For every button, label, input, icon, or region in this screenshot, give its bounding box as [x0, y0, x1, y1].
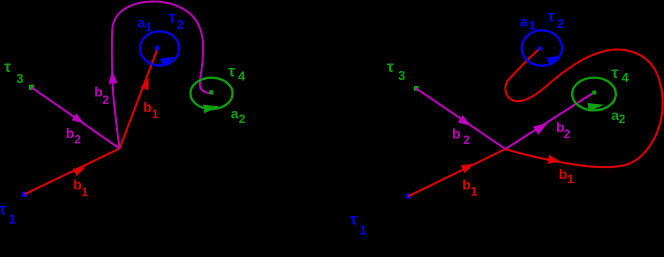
loop a2 (right green circle)	[572, 78, 616, 112]
node tau_1 (right, blue puncture point)	[406, 194, 411, 199]
svg-text:2: 2	[564, 127, 571, 141]
label tau_1 (right)	[350, 212, 367, 238]
wire b2 segment junction to tau_4 point (right)	[505, 94, 592, 150]
svg-text:b: b	[559, 166, 568, 182]
svg-text:3: 3	[398, 68, 405, 83]
node tau_4 (left, green puncture point)	[209, 90, 213, 94]
svg-text:τ: τ	[169, 10, 176, 27]
label tau_2 (left)	[169, 10, 184, 33]
loop a1 (right blue circle)	[522, 30, 562, 66]
svg-text:1: 1	[471, 185, 478, 199]
svg-text:1: 1	[9, 212, 16, 227]
label tau_3 (left)	[4, 59, 23, 86]
svg-text:1: 1	[82, 185, 89, 199]
svg-text:2: 2	[557, 16, 564, 31]
wire b2 segment tau_3 to junction (right)	[416, 88, 505, 149]
svg-text:τ: τ	[0, 202, 6, 219]
svg-text:2: 2	[619, 112, 626, 126]
loop a1 (left blue circle)	[140, 31, 179, 67]
svg-text:1: 1	[360, 223, 367, 238]
svg-text:a: a	[520, 13, 528, 29]
svg-text:4: 4	[238, 69, 246, 84]
loop a2 (left green circle)	[190, 78, 232, 113]
label b2 (left loop ascending branch)	[94, 84, 109, 107]
label b2 (left of tau_3 arrow)	[66, 125, 81, 147]
svg-text:τ: τ	[611, 65, 618, 82]
svg-text:b: b	[66, 125, 75, 141]
node tau_3 (right, green puncture point)	[414, 86, 419, 91]
svg-text:τ: τ	[228, 63, 235, 80]
label b2 (right, left of junction)	[452, 125, 470, 147]
svg-text:1: 1	[567, 172, 574, 186]
svg-text:2: 2	[102, 93, 109, 107]
wire b1 segment tau_1 to junction (left)	[25, 149, 120, 195]
svg-text:b: b	[73, 176, 82, 192]
svg-text:1: 1	[529, 19, 536, 33]
label b1 (right, on loop)	[559, 166, 575, 186]
label b1 (right lower-left)	[462, 176, 477, 198]
label tau_3 (right)	[387, 59, 405, 83]
svg-text:τ: τ	[548, 8, 555, 25]
label tau_4 (left)	[228, 63, 246, 83]
node tau_4 (right, green puncture point)	[592, 91, 596, 95]
label b2 (right, near tau_4)	[556, 119, 571, 141]
svg-text:1: 1	[152, 107, 159, 121]
wire b1 segment junction to tau_2 point (left)	[120, 50, 158, 149]
node tau_2 (right, blue puncture point)	[538, 46, 542, 50]
label tau_2 (right)	[548, 8, 565, 30]
svg-text:b: b	[143, 99, 152, 115]
svg-text:b: b	[452, 125, 461, 141]
svg-text:2: 2	[239, 112, 246, 126]
svg-text:4: 4	[622, 70, 630, 85]
node tau_2 (left, blue puncture point)	[155, 46, 160, 51]
svg-text:2: 2	[74, 133, 81, 147]
node tau_3 (left, green puncture point)	[29, 85, 34, 90]
label b1 (left upper)	[143, 99, 159, 121]
svg-text:1: 1	[145, 20, 152, 34]
wire b2 loop from junction around a1 to tau_4 point (left)	[108, 2, 210, 149]
label a2 (left)	[231, 106, 246, 126]
svg-text:a: a	[231, 106, 239, 122]
svg-text:2: 2	[463, 133, 470, 147]
svg-text:3: 3	[16, 71, 23, 86]
svg-text:τ: τ	[350, 212, 357, 229]
wire b1 segment tau_1 to junction (right)	[408, 149, 505, 196]
wire b1 red loop from junction around a2 ending at tau_2 point (right)	[505, 49, 662, 168]
label tau_1 (left)	[0, 202, 16, 227]
svg-text:2: 2	[177, 17, 184, 32]
label a2 (right)	[611, 107, 625, 126]
node tau_1 (left, blue puncture point)	[22, 192, 27, 197]
wire b2 segment tau_3 to junction (left)	[31, 87, 119, 148]
label b1 (left lower)	[73, 176, 88, 198]
label tau_4 (right)	[611, 65, 629, 85]
svg-text:τ: τ	[387, 59, 394, 76]
svg-text:τ: τ	[4, 59, 11, 76]
label a1 (left)	[138, 15, 153, 34]
label a1 (right)	[520, 13, 536, 32]
svg-text:b: b	[462, 176, 471, 192]
